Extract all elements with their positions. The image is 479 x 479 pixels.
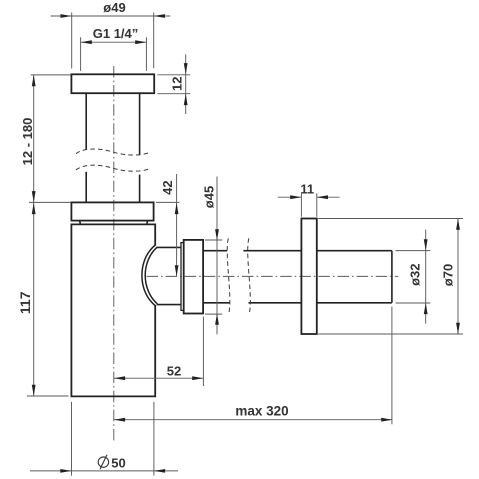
vertical centerline of trap body	[113, 66, 115, 441]
svg-text:12 - 180: 12 - 180	[20, 118, 35, 166]
dimension ø49 extension lines	[72, 13, 154, 69]
dimension ø70 line	[457, 219, 459, 335]
compression nut	[184, 240, 203, 314]
dimension 52 extension line right	[202, 317, 204, 387]
svg-text:50: 50	[111, 455, 125, 470]
dimension max 320 extension line right	[391, 307, 393, 425]
dimension 11 lines	[278, 196, 340, 198]
dimension G1 1/4 line	[81, 41, 147, 43]
outlet tube bottom edge (left of nut)	[157, 304, 181, 306]
washer ring	[181, 243, 184, 311]
outlet socket outer arc	[142, 245, 156, 307]
dimension dia50 arrows	[60, 469, 165, 473]
dimension 12 right extension lines	[157, 75, 190, 94]
dimension ø70 extension lines	[318, 219, 463, 335]
dimension 42 arrows	[175, 203, 179, 277]
dimension 42 line	[176, 174, 178, 276]
dimension ø49 line	[51, 15, 171, 17]
svg-text:117: 117	[17, 291, 33, 314]
dimension ø70 arrows	[456, 219, 460, 335]
wall escutcheon flange	[301, 219, 316, 335]
dimension ø32 extension lines	[396, 251, 431, 303]
dimension 12-180 extension line top	[29, 75, 71, 202]
pipe break curve left	[227, 238, 230, 313]
inlet pipe wall right (upper segment)	[139, 93, 141, 155]
outlet pipe end	[391, 251, 393, 303]
dimension dia50 line	[30, 470, 178, 472]
svg-text:G1 1/4”: G1 1/4”	[93, 26, 139, 41]
dimension 52 line	[114, 377, 203, 379]
outlet tube top edge (left of nut)	[157, 246, 181, 248]
mounting flange (lower)	[71, 202, 153, 220]
svg-text:ø49: ø49	[103, 0, 125, 15]
dimension max 320 arrows	[114, 418, 393, 422]
dimension ø45 arrows	[215, 229, 219, 325]
dimension 42 extension line	[156, 201, 179, 203]
dimension 117 arrows	[32, 203, 36, 396]
inlet flange (top cap)	[71, 74, 154, 93]
dimension 12 right arrows	[184, 63, 188, 105]
svg-text:ø32: ø32	[407, 263, 422, 285]
svg-text:ø70: ø70	[441, 264, 456, 286]
horizontal centerline of outlet pipe	[147, 275, 399, 277]
dimension 117 line	[33, 202, 35, 396]
pipe break curve right	[248, 238, 251, 313]
dimension ø32 line segments	[425, 230, 427, 324]
outlet pipe top edge segments	[203, 250, 392, 252]
inlet pipe wall left (upper segment)	[85, 93, 87, 149]
outlet socket inner arc	[145, 247, 157, 304]
gasket nub right	[146, 221, 149, 225]
dimension 12 right line	[185, 55, 187, 115]
dimension dia50 extension lines	[72, 402, 154, 476]
svg-text:42: 42	[160, 180, 175, 194]
svg-text:11: 11	[300, 182, 314, 197]
dimension dia50 diameter symbol	[98, 457, 108, 467]
trap body (cup) outline	[71, 224, 155, 396]
dimension G1 1/4 arrows	[81, 40, 147, 44]
pipe break wavy line lower	[76, 165, 151, 171]
dimension 11 arrows	[290, 195, 328, 199]
svg-text:ø45: ø45	[202, 186, 217, 208]
svg-text:max 320: max 320	[235, 404, 288, 419]
dimension 12-180 line	[33, 75, 35, 202]
inlet pipe wall right (lower segment)	[139, 175, 141, 203]
dimension 11 extension lines	[301, 193, 316, 217]
dimension ø49 arrows	[61, 14, 165, 18]
svg-text:52: 52	[167, 363, 181, 378]
dimension max 320 line	[114, 419, 393, 421]
outlet pipe bottom edge segments	[203, 302, 392, 304]
pipe break wavy line upper	[76, 149, 151, 155]
dimension G1 1/4 extension lines	[81, 37, 147, 71]
gasket nub left	[79, 221, 82, 225]
dimension ø45 extension lines	[205, 240, 222, 314]
svg-text:12: 12	[170, 77, 185, 91]
dimension ø45 line	[216, 177, 218, 335]
dimension 117 extension line bottom	[27, 395, 69, 397]
inlet pipe wall left (lower segment)	[85, 172, 87, 203]
dimension 12-180 arrows	[32, 75, 36, 202]
dimension ø32 arrows	[424, 239, 428, 314]
dimension 52 arrows	[114, 376, 203, 380]
